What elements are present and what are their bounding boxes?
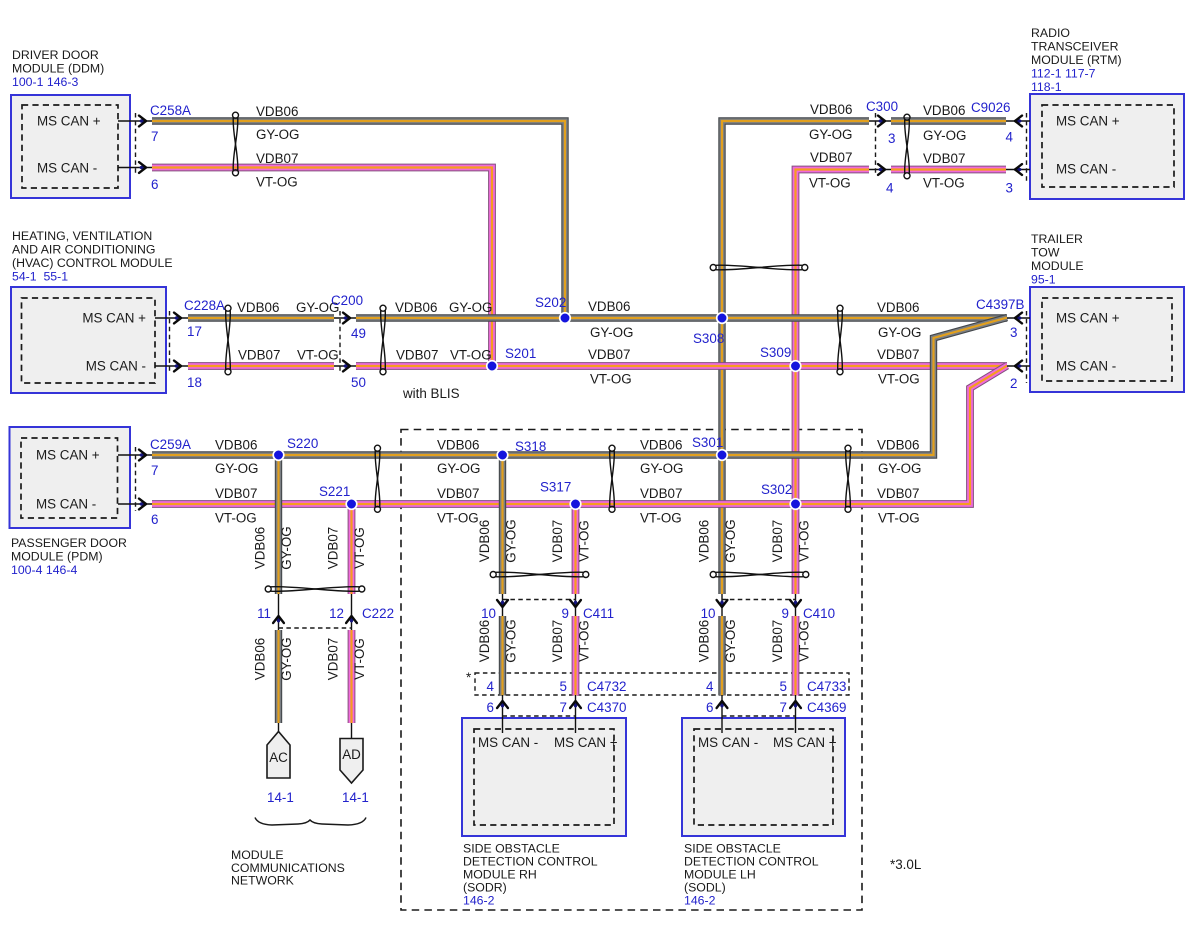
svg-text:GY-OG: GY-OG (504, 619, 519, 662)
svg-text:VT-OG: VT-OG (450, 348, 492, 363)
arrow HVAC pin18 (174, 361, 181, 372)
svg-text:MS CAN -: MS CAN - (36, 497, 96, 512)
svg-text:VDB07: VDB07 (238, 348, 280, 363)
wire VDB06 C300 to RTM C9026 pin4 (891, 117, 1006, 124)
svg-text:VT-OG: VT-OG (215, 511, 257, 526)
wire VDB07 DDM pin6 to S201 vertical (152, 168, 492, 367)
connector C300 dashed line (875, 113, 877, 175)
svg-text:VT-OG: VT-OG (577, 620, 592, 662)
arrow C200 VDB07 (343, 361, 350, 372)
svg-text:S318: S318 (515, 439, 546, 454)
arrow PDM pin7 (139, 450, 146, 461)
arrow TTM pin2 (1015, 361, 1022, 372)
svg-text:GY-OG: GY-OG (723, 619, 738, 662)
connector C259A dashed line (135, 447, 137, 511)
svg-text:C4369: C4369 (807, 700, 846, 715)
arrow HVAC pin17 (174, 313, 181, 324)
svg-text:49: 49 (351, 326, 366, 341)
svg-text:100-1 146-3: 100-1 146-3 (12, 75, 78, 89)
svg-text:SIDE OBSTACLE: SIDE OBSTACLE (463, 842, 560, 856)
svg-text:VDB07: VDB07 (877, 486, 919, 501)
svg-text:(SODL): (SODL) (684, 881, 726, 895)
arrow DDM pin7 (139, 116, 146, 127)
svg-text:SIDE OBSTACLE: SIDE OBSTACLE (684, 842, 781, 856)
module DDM box (11, 95, 130, 198)
svg-text:MS CAN -: MS CAN - (698, 735, 758, 750)
twisted pair symbol low row 2 (609, 445, 615, 512)
svg-text:7: 7 (780, 700, 787, 715)
twisted pair symbol top row right (904, 114, 910, 179)
arrow C411 pin9 (570, 600, 581, 607)
svg-text:MODULE (PDM): MODULE (PDM) (11, 550, 103, 564)
svg-text:10: 10 (701, 606, 716, 621)
svg-text:18: 18 (187, 375, 202, 390)
module RTM box (1030, 94, 1184, 199)
svg-text:C4733: C4733 (807, 679, 846, 694)
svg-text:9: 9 (562, 606, 569, 621)
lead DDM pin7 (118, 120, 152, 122)
lead C300 VDB06 (869, 120, 891, 122)
splice S301 (717, 450, 728, 461)
svg-text:RADIO: RADIO (1031, 26, 1070, 40)
svg-text:VDB07: VDB07 (215, 486, 257, 501)
svg-text:MS CAN -: MS CAN - (478, 735, 538, 750)
svg-text:C300: C300 (866, 99, 898, 114)
svg-text:MS CAN -: MS CAN - (1056, 359, 1116, 374)
svg-text:VDB06: VDB06 (697, 620, 712, 662)
svg-text:VT-OG: VT-OG (797, 620, 812, 662)
svg-text:MS CAN +: MS CAN + (554, 735, 618, 750)
svg-text:2: 2 (1010, 376, 1017, 391)
dashed connector box C4732 C4733 (*) (475, 673, 849, 695)
svg-text:12: 12 (329, 606, 344, 621)
lead RTM pin4 (1006, 120, 1030, 122)
svg-text:6: 6 (151, 177, 158, 192)
wire VDB06 bus HVAC pin17 to C200 (188, 314, 334, 321)
svg-text:GY-OG: GY-OG (256, 127, 299, 142)
lead AD stub (351, 723, 353, 739)
svg-text:MS CAN +: MS CAN + (1056, 311, 1120, 326)
svg-text:VDB07: VDB07 (877, 347, 919, 362)
svg-text:VT-OG: VT-OG (352, 527, 367, 569)
svg-text:MODULE (RTM): MODULE (RTM) (1031, 53, 1122, 67)
brace module communications network (255, 818, 366, 826)
lead HVAC pin17 (155, 317, 188, 319)
lead C4369 pin6 into SODL (721, 695, 723, 733)
svg-text:S302: S302 (761, 482, 792, 497)
lead C4370 pin7 into SODR (575, 695, 577, 733)
svg-text:VT-OG: VT-OG (878, 511, 920, 526)
svg-text:VT-OG: VT-OG (352, 638, 367, 680)
svg-text:C259A: C259A (150, 437, 191, 452)
svg-text:AND AIR CONDITIONING: AND AIR CONDITIONING (12, 243, 155, 257)
wire VDB06 C222 pin11 down to AC (275, 630, 282, 723)
svg-text:GY-OG: GY-OG (723, 519, 738, 562)
lead AC stub (278, 723, 280, 733)
svg-text:MS CAN +: MS CAN + (773, 735, 837, 750)
arrow C410 pin10 (717, 600, 728, 607)
svg-text:C411: C411 (583, 606, 614, 621)
twisted pair symbol C411 drop (490, 572, 589, 578)
svg-text:MODULE RH: MODULE RH (463, 868, 537, 882)
svg-text:(HVAC) CONTROL MODULE: (HVAC) CONTROL MODULE (12, 256, 173, 270)
splice S317 (570, 499, 581, 510)
lead C411 pin9 (575, 594, 577, 616)
lead RTM pin3 (1006, 169, 1030, 171)
svg-text:VDB06: VDB06 (437, 438, 479, 453)
connector C4369 dashed line (722, 715, 796, 717)
svg-text:MS CAN +: MS CAN + (82, 311, 146, 326)
svg-text:GY-OG: GY-OG (279, 526, 294, 569)
svg-text:DETECTION CONTROL: DETECTION CONTROL (684, 855, 819, 869)
svg-text:VT-OG: VT-OG (437, 511, 479, 526)
wire VDB07 S317 drop to C411 pin9 (572, 504, 580, 594)
svg-text:3: 3 (1006, 181, 1013, 196)
svg-text:TRANSCEIVER: TRANSCEIVER (1031, 40, 1119, 54)
splice S202 (560, 313, 571, 324)
twisted pair symbol RTM verticals (710, 265, 808, 271)
svg-text:VDB07: VDB07 (550, 620, 565, 662)
svg-text:AC: AC (269, 750, 288, 765)
svg-text:VDB06: VDB06 (588, 299, 630, 314)
svg-text:7: 7 (151, 129, 158, 144)
svg-text:4: 4 (1006, 130, 1014, 145)
connector C228A dashed line (169, 311, 171, 373)
wire VDB06 lower bus PDM pin7 through S220 S318 S301 riser to C4397B pin3 (152, 318, 1007, 455)
svg-text:VDB07: VDB07 (810, 150, 852, 165)
svg-text:MS CAN -: MS CAN - (1056, 162, 1116, 177)
wire VDB07 C300 to RTM C9026 pin3 (891, 166, 1006, 174)
svg-text:S221: S221 (319, 484, 350, 499)
svg-text:MS CAN -: MS CAN - (86, 359, 146, 374)
svg-text:TOW: TOW (1031, 246, 1060, 260)
dashed harness region box (with BLIS) (401, 430, 862, 911)
svg-text:6: 6 (151, 512, 158, 527)
lead C410 pin9 (795, 594, 797, 616)
svg-text:VDB07: VDB07 (923, 151, 965, 166)
svg-text:GY-OG: GY-OG (590, 325, 633, 340)
svg-text:VDB07: VDB07 (550, 520, 565, 562)
lead TTM pin3 (1007, 317, 1030, 319)
svg-text:GY-OG: GY-OG (878, 461, 921, 476)
arrow C222 pin11 (273, 616, 284, 623)
svg-text:S220: S220 (287, 436, 318, 451)
lead C410 pin10 (721, 594, 723, 616)
wire VDB07 C411 pin9 through C4732 pin5 to C4370 pin7 (572, 616, 580, 696)
svg-text:VDB06: VDB06 (256, 104, 298, 119)
wire VDB06 S318 drop to C411 pin10 (499, 455, 506, 594)
svg-text:VT-OG: VT-OG (577, 520, 592, 562)
twisted pair symbol C222 drop (265, 586, 365, 592)
module TTM box (1030, 287, 1184, 392)
svg-text:GY-OG: GY-OG (640, 461, 683, 476)
svg-text:with BLIS: with BLIS (402, 386, 460, 401)
svg-text:VDB07: VDB07 (770, 620, 785, 662)
twisted pair symbol low row 3 (845, 445, 851, 512)
arrow C410 pin9 (790, 600, 801, 607)
svg-text:S202: S202 (535, 295, 566, 310)
svg-text:100-4 146-4: 100-4 146-4 (11, 563, 77, 577)
lead C300 VDB07 (869, 169, 891, 171)
arrow C4369 pin7 (790, 701, 801, 708)
splice S309 (790, 361, 801, 372)
module HVAC box (11, 287, 166, 393)
off-page connector AC (267, 732, 290, 779)
svg-text:NETWORK: NETWORK (231, 874, 295, 888)
svg-text:S317: S317 (540, 480, 571, 495)
svg-text:5: 5 (780, 679, 787, 694)
svg-text:GY-OG: GY-OG (437, 461, 480, 476)
twisted pair symbol mid row 3 (837, 305, 843, 375)
svg-text:VT-OG: VT-OG (878, 372, 920, 387)
svg-text:50: 50 (351, 375, 366, 390)
svg-text:S201: S201 (505, 346, 536, 361)
svg-text:C410: C410 (803, 606, 835, 621)
lead PDM pin6 (118, 503, 152, 505)
svg-text:C9026: C9026 (971, 100, 1010, 115)
svg-text:VDB06: VDB06 (237, 300, 279, 315)
splice S308 (717, 313, 728, 324)
svg-text:VT-OG: VT-OG (297, 348, 339, 363)
splice S220 (273, 450, 284, 461)
lead C222 pin11 (278, 594, 280, 630)
svg-text:118-1: 118-1 (1031, 80, 1062, 94)
arrow C4369 pin6 (717, 701, 728, 708)
svg-text:GY-OG: GY-OG (279, 637, 294, 680)
wire VDB06 C411 pin10 through C4732 pin4 to C4370 pin6 (499, 616, 506, 696)
svg-text:VDB07: VDB07 (326, 527, 341, 569)
svg-text:VDB07: VDB07 (437, 486, 479, 501)
svg-text:VDB06: VDB06 (877, 438, 919, 453)
svg-text:S309: S309 (760, 345, 791, 360)
splice S318 (497, 450, 508, 461)
svg-text:(SODR): (SODR) (463, 881, 507, 895)
svg-text:VDB07: VDB07 (256, 151, 298, 166)
svg-text:VDB06: VDB06 (697, 520, 712, 562)
svg-text:C4370: C4370 (587, 700, 626, 715)
wire VDB06 C300 corner down through S308 to S301 and below (722, 121, 869, 594)
svg-text:VDB07: VDB07 (640, 486, 682, 501)
svg-text:VT-OG: VT-OG (590, 372, 632, 387)
svg-text:VT-OG: VT-OG (256, 175, 298, 190)
svg-text:14-1: 14-1 (267, 790, 294, 805)
svg-text:VDB06: VDB06 (810, 102, 852, 117)
module SODR box (462, 718, 626, 836)
arrow C300 VDB07 (878, 164, 885, 175)
wire VDB07 C222 pin12 down to AD (348, 630, 356, 723)
connector C222 dashed line (279, 627, 352, 629)
connector C200 dashed line (339, 311, 341, 373)
wire VDB07 C410 pin9 through C4733 pin5 to C4369 pin7 (792, 616, 800, 696)
arrow C4370 pin6 (497, 701, 508, 708)
module PDM box (10, 427, 131, 528)
svg-text:3: 3 (888, 131, 895, 146)
svg-text:4: 4 (886, 181, 894, 196)
lead C4369 pin7 into SODL (795, 695, 797, 733)
svg-text:GY-OG: GY-OG (504, 519, 519, 562)
svg-text:VDB06: VDB06 (253, 527, 268, 569)
wire VDB06 C410 pin10 through C4733 pin4 to C4369 pin6 (718, 616, 725, 696)
svg-text:DRIVER DOOR: DRIVER DOOR (12, 48, 99, 62)
svg-text:VDB07: VDB07 (770, 520, 785, 562)
svg-text:C200: C200 (331, 293, 363, 308)
svg-text:VDB07: VDB07 (588, 347, 630, 362)
svg-text:MS CAN -: MS CAN - (37, 161, 97, 176)
svg-text:C222: C222 (362, 606, 394, 621)
svg-text:VDB06: VDB06 (477, 520, 492, 562)
lead PDM pin7 (118, 454, 152, 456)
connector C4397B dashed line (1026, 311, 1028, 383)
svg-text:10: 10 (481, 606, 496, 621)
lead TTM pin2 (1007, 365, 1030, 367)
svg-text:S301: S301 (692, 435, 723, 450)
wire VDB06 DDM pin7 to S202 vertical (152, 121, 565, 318)
svg-text:*: * (466, 670, 471, 685)
svg-text:VDB07: VDB07 (396, 348, 438, 363)
svg-text:MS CAN +: MS CAN + (1056, 114, 1120, 129)
connector C258A dashed line (135, 113, 137, 175)
svg-text:VT-OG: VT-OG (923, 176, 965, 191)
twisted pair symbol mid row 1 (225, 305, 231, 375)
svg-text:GY-OG: GY-OG (215, 461, 258, 476)
svg-text:9: 9 (782, 606, 789, 621)
arrow TTM pin3 (1015, 313, 1022, 324)
svg-text:VDB06: VDB06 (477, 620, 492, 662)
svg-text:4: 4 (706, 679, 714, 694)
svg-text:5: 5 (560, 679, 567, 694)
wire VDB07 lower bus PDM pin6 through S221 S317 S302 riser to C4397B pin2 (152, 366, 1007, 504)
lead C200 VDB06 (334, 317, 356, 319)
svg-text:VT-OG: VT-OG (640, 511, 682, 526)
svg-text:C4732: C4732 (587, 679, 626, 694)
lead C4370 pin6 into SODR (502, 695, 504, 733)
arrow C300 VDB06 (878, 116, 885, 127)
svg-text:VDB06: VDB06 (877, 300, 919, 315)
wire VDB06 S220 drop to C222 pin11 (275, 455, 282, 594)
svg-text:3: 3 (1010, 325, 1017, 340)
svg-text:6: 6 (487, 700, 494, 715)
svg-text:S308: S308 (693, 331, 724, 346)
svg-text:C4397B: C4397B (976, 297, 1024, 312)
svg-text:PASSENGER DOOR: PASSENGER DOOR (11, 536, 127, 550)
wire VDB06 bus C200 to C4397B pin3 (356, 314, 1007, 321)
module SODL box (682, 718, 845, 836)
wire VDB07 bus C200 to C4397B pin2 (356, 362, 1007, 370)
connector C410 dashed line (722, 599, 796, 601)
off-page connector AD (340, 739, 363, 784)
arrow C4370 pin7 (570, 701, 581, 708)
svg-text:VDB06: VDB06 (395, 300, 437, 315)
svg-text:GY-OG: GY-OG (923, 128, 966, 143)
svg-text:*3.0L: *3.0L (890, 857, 921, 872)
splice S221 (346, 499, 357, 510)
arrow RTM pin4 (1015, 116, 1022, 127)
svg-text:7: 7 (560, 700, 567, 715)
connector C4370 dashed line (503, 715, 576, 717)
svg-text:54-1 55-1: 54-1 55-1 (12, 270, 68, 284)
svg-text:HEATING, VENTILATION: HEATING, VENTILATION (12, 229, 152, 243)
svg-text:MS CAN +: MS CAN + (37, 114, 101, 129)
svg-text:C258A: C258A (150, 103, 191, 118)
arrow PDM pin6 (139, 499, 146, 510)
arrow RTM pin3 (1015, 164, 1022, 175)
svg-text:MS CAN +: MS CAN + (36, 448, 100, 463)
svg-text:MODULE (DDM): MODULE (DDM) (12, 62, 104, 76)
twisted pair symbol mid row 2 (380, 305, 386, 375)
svg-text:6: 6 (706, 700, 713, 715)
twisted pair symbol low row 1 (375, 445, 381, 512)
svg-text:VDB06: VDB06 (640, 438, 682, 453)
svg-text:GY-OG: GY-OG (809, 127, 852, 142)
svg-text:14-1: 14-1 (342, 790, 369, 805)
svg-text:146-2: 146-2 (684, 894, 716, 908)
svg-text:VT-OG: VT-OG (797, 520, 812, 562)
arrow C200 VDB06 (343, 313, 350, 324)
svg-text:MODULE LH: MODULE LH (684, 868, 756, 882)
svg-text:112-1 117-7: 112-1 117-7 (1031, 67, 1096, 81)
svg-text:4: 4 (487, 679, 495, 694)
connector C9026 dashed line (1026, 113, 1028, 181)
svg-text:11: 11 (257, 606, 271, 621)
svg-text:MODULE: MODULE (1031, 259, 1084, 273)
arrow DDM pin6 (139, 162, 146, 173)
twisted pair symbol top row left (233, 112, 239, 176)
svg-text:GY-OG: GY-OG (449, 300, 492, 315)
svg-text:146-2: 146-2 (463, 894, 495, 908)
lead C200 VDB07 (334, 365, 356, 367)
svg-text:VDB06: VDB06 (253, 638, 268, 680)
svg-text:95-1: 95-1 (1031, 273, 1056, 287)
svg-text:VDB07: VDB07 (326, 638, 341, 680)
svg-text:GY-OG: GY-OG (878, 325, 921, 340)
lead C222 pin12 (351, 594, 353, 630)
lead DDM pin6 (118, 167, 152, 169)
svg-text:TRAILER: TRAILER (1031, 232, 1083, 246)
arrow C222 pin12 (346, 616, 357, 623)
svg-text:DETECTION CONTROL: DETECTION CONTROL (463, 855, 598, 869)
lead C411 pin10 (502, 594, 504, 616)
arrow C411 pin10 (497, 600, 508, 607)
svg-text:VT-OG: VT-OG (809, 176, 851, 191)
wire VDB07 S221 drop to C222 pin12 (348, 504, 356, 594)
twisted pair symbol C410 drop (710, 572, 809, 578)
svg-text:VDB06: VDB06 (215, 438, 257, 453)
wire VDB07 bus HVAC pin18 to C200 (188, 362, 334, 370)
splice S201 (487, 361, 498, 372)
svg-text:AD: AD (342, 747, 361, 762)
lead HVAC pin18 (155, 365, 188, 367)
connector C411 dashed line (503, 599, 576, 601)
svg-text:VDB06: VDB06 (923, 103, 965, 118)
svg-text:7: 7 (151, 463, 158, 478)
wire VDB07 C300 corner down through S309 to S302 and below (796, 170, 870, 595)
splice S302 (790, 499, 801, 510)
svg-text:17: 17 (187, 324, 202, 339)
svg-text:C228A: C228A (184, 298, 225, 313)
